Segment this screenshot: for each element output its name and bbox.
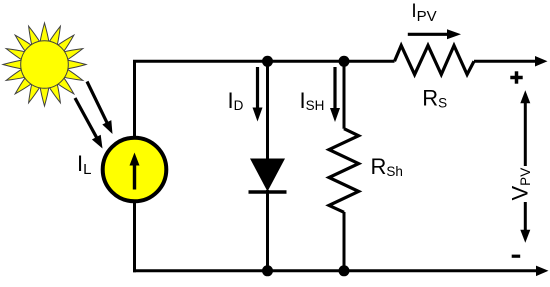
light ray arrow 1: [87, 82, 113, 135]
current arrow ID: [253, 67, 263, 122]
voltage arrow VPV: [520, 90, 530, 243]
label VPV: [508, 168, 534, 201]
junction node bottom shunt: [339, 265, 350, 276]
resistor RS: [395, 46, 475, 75]
label RS: [422, 86, 447, 111]
label IL: [77, 151, 91, 178]
label IPV: [411, 1, 436, 25]
wire left vertical bottom (source to bottom rail): [133, 201, 136, 272]
current arrow IPV: [408, 29, 461, 39]
junction node bottom diode: [262, 265, 273, 276]
wire top rail: [133, 60, 536, 63]
junction node top diode: [262, 56, 273, 67]
light ray arrow 2: [75, 98, 103, 149]
output terminal arrow - (bottom right): [536, 266, 549, 277]
wire bottom rail: [133, 269, 537, 272]
resistor RSh: [329, 129, 359, 213]
label ISH: [300, 88, 325, 113]
junction node top shunt: [339, 56, 350, 67]
current source IL: [103, 138, 167, 202]
output terminal arrow + (top right): [535, 56, 548, 67]
plus sign: [510, 71, 522, 83]
wire diode branch: [266, 61, 269, 270]
sun: [3, 23, 86, 106]
label ID: [228, 88, 244, 113]
minus sign: [512, 255, 521, 258]
wire left vertical top (source to top rail): [133, 60, 136, 139]
current arrow ISH: [330, 67, 340, 122]
label RSh: [371, 154, 403, 179]
wire shunt branch: [343, 61, 346, 270]
diode D1: [249, 159, 287, 193]
